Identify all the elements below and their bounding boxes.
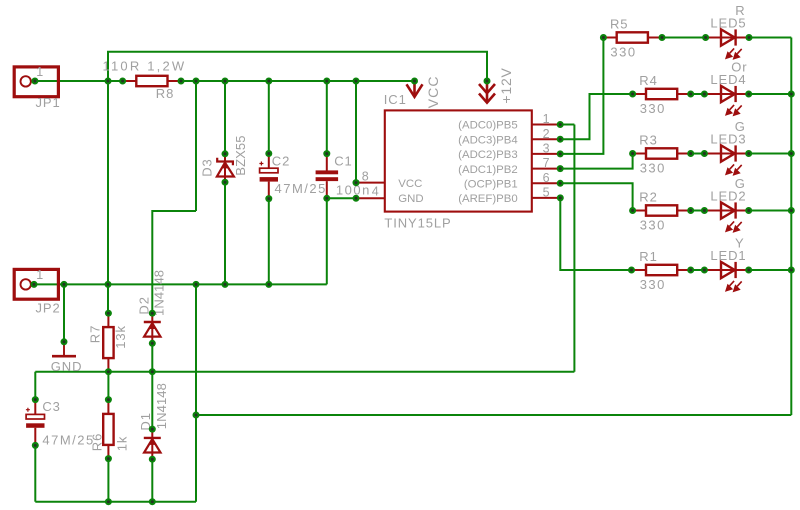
svg-text:IC1: IC1	[384, 92, 407, 107]
node IC pin 7	[557, 165, 564, 172]
node JP2 pin	[31, 281, 38, 288]
node R4 right	[687, 91, 694, 98]
wire sense rail y=371.7	[35, 371, 574, 373]
node C2 bottom	[265, 195, 272, 202]
wire pin 2 to R4	[560, 94, 632, 139]
svg-text:D2: D2	[136, 296, 151, 314]
wire to D1 top	[151, 372, 153, 429]
connector JP1	[14, 67, 58, 97]
node IC pin 3	[557, 150, 564, 157]
svg-text:R2: R2	[639, 189, 657, 204]
node IC pin 2	[557, 136, 564, 143]
IC1 right pin lead 1	[532, 124, 560, 126]
wire to C2 top	[268, 81, 270, 154]
junction right column row LED4	[788, 91, 795, 98]
capacitor C2 (polarized)	[259, 154, 278, 199]
node D2 top	[149, 310, 156, 317]
LED LED3	[705, 145, 749, 174]
svg-text:1: 1	[543, 112, 550, 126]
wire to C3 top	[34, 372, 36, 400]
node IC GND pin	[353, 195, 360, 202]
svg-text:330: 330	[640, 161, 666, 176]
junction +12V/main	[105, 78, 112, 85]
wire pin 1 stub	[560, 124, 574, 126]
svg-text:Or: Or	[731, 59, 747, 74]
wire R2 to LED2	[691, 210, 705, 212]
svg-text:R4: R4	[639, 73, 657, 88]
IC1 VCC GND pin names	[398, 178, 423, 205]
node LED3 right	[745, 150, 752, 157]
node LED4 right	[745, 91, 752, 98]
svg-text:C1: C1	[334, 154, 352, 169]
node D1 bottom	[149, 456, 156, 463]
resistor R1 leads	[632, 269, 691, 271]
node R6 bottom	[105, 455, 112, 462]
wire pin 6 to R2	[560, 183, 632, 210]
svg-text:C3: C3	[42, 399, 60, 414]
svg-text:(ADC0)PB5: (ADC0)PB5	[458, 120, 518, 132]
svg-text:R6: R6	[89, 433, 104, 451]
junction VCC rail/D2 branch	[193, 78, 200, 85]
junction right column row LED1	[788, 267, 795, 274]
svg-text:GND: GND	[398, 193, 423, 205]
wire jog to D2	[152, 211, 196, 313]
wire D2 bottom down	[151, 343, 153, 371]
node C1 bottom	[323, 195, 330, 202]
wire JP2 row	[34, 283, 327, 285]
supply symbol VCC	[407, 82, 423, 97]
svg-text:6: 6	[543, 171, 550, 185]
svg-text:5: 5	[543, 186, 550, 200]
svg-text:2: 2	[543, 127, 550, 141]
resistor R8 body	[136, 76, 167, 86]
wire VCC rail down to jog	[195, 81, 197, 211]
svg-text:330: 330	[610, 45, 636, 60]
node IC pin 5	[557, 194, 564, 201]
zener diode D3	[217, 154, 234, 182]
junction D2/rail	[149, 368, 156, 375]
svg-text:1: 1	[36, 65, 43, 79]
wire D1 bottom down	[151, 459, 153, 502]
resistor R8 leads	[123, 80, 181, 82]
junction GND drop	[61, 281, 68, 288]
resistor R2 leads	[633, 210, 691, 212]
node LED5 right	[746, 34, 753, 41]
wire C2 bottom down	[268, 199, 270, 285]
svg-text:7: 7	[543, 156, 550, 170]
wire LED4 to right column	[749, 93, 792, 95]
resistor R5 body	[617, 32, 648, 42]
svg-text:TINY15LP: TINY15LP	[384, 216, 451, 231]
connector JP2	[14, 269, 58, 299]
node R6 top	[105, 396, 112, 403]
node LED4 left	[701, 91, 708, 98]
junction x108/JP2 row	[105, 281, 112, 288]
LED LED2	[705, 202, 749, 231]
resistor R3 body	[646, 148, 677, 158]
node R7 top	[105, 310, 112, 317]
wire LED1 to right column	[749, 269, 792, 271]
svg-text:330: 330	[640, 101, 666, 116]
wire R7-R6 link	[107, 372, 109, 400]
node R1 right	[687, 267, 694, 274]
node R1 left	[628, 267, 635, 274]
node D1 top	[149, 426, 156, 433]
wire pin 7 to R3	[560, 154, 632, 169]
junction VCC rail/IC	[353, 78, 360, 85]
node R4 left	[629, 91, 636, 98]
node R2 left	[629, 207, 636, 214]
node +12V symbol pin	[484, 78, 491, 85]
wire pin1 down to sense rail	[573, 125, 575, 372]
node LED5 left	[702, 34, 709, 41]
IC1 right pin lead 3	[532, 153, 560, 155]
op-amp/IC U1 = IC1 TINY15LP box	[385, 110, 532, 211]
node IC pin 1	[557, 121, 564, 128]
svg-text:1N4148: 1N4148	[152, 270, 167, 316]
wire JP2 to GND symbol	[63, 284, 65, 341]
svg-text:(ADC2)PB3: (ADC2)PB3	[458, 149, 518, 161]
wire R5 to LED5	[662, 37, 706, 39]
node C2 top	[265, 150, 272, 157]
svg-text:(ADC1)PB2: (ADC1)PB2	[458, 164, 518, 176]
capacitor C1	[316, 154, 339, 199]
svg-text:(AREF)PB0: (AREF)PB0	[458, 193, 518, 205]
svg-text:330: 330	[640, 218, 666, 233]
wire D3 bottom down	[224, 182, 226, 284]
svg-text:47M/25: 47M/25	[275, 181, 327, 196]
junction VCC rail/C1	[323, 78, 330, 85]
svg-text:1N4148: 1N4148	[154, 383, 169, 429]
node JP1 pin	[31, 78, 38, 85]
capacitor C3 (polarized)	[26, 400, 45, 446]
diode D1 1N4148	[144, 429, 161, 459]
svg-text:R3: R3	[639, 132, 657, 147]
wire JP1 to R8 (net +12V)	[35, 80, 123, 82]
resistor R4 leads	[633, 93, 691, 95]
diode D2 1N4148	[144, 313, 161, 343]
junction R8 right	[178, 78, 185, 85]
junction VCC rail/D3	[222, 78, 229, 85]
wire bottom return y=415	[196, 414, 791, 416]
node C1 top	[323, 150, 330, 157]
svg-text:R: R	[735, 3, 745, 18]
svg-text:47M/25: 47M/25	[42, 432, 94, 447]
wire VCC rail y=81	[181, 80, 415, 82]
svg-text:D3: D3	[200, 158, 215, 176]
svg-text:BZX55: BZX55	[233, 135, 248, 175]
svg-text:VCC: VCC	[398, 178, 422, 190]
node VCC symbol pin	[411, 78, 418, 85]
wire to C1 top	[326, 81, 328, 154]
IC1 left pin leads (VCC pin 8, GND pin 4)	[356, 183, 385, 199]
resistor R4 body	[646, 89, 677, 99]
svg-text:8: 8	[362, 170, 369, 184]
resistor R5 leads	[603, 37, 662, 39]
junction D1/bottom rail	[149, 498, 156, 505]
junction x196/y415 rail	[193, 412, 200, 419]
wire C1 bottom up	[326, 198, 328, 284]
resistor R1 body	[646, 265, 677, 275]
wire to IC VCC pin	[355, 81, 357, 183]
resistor R2 body	[646, 205, 677, 215]
svg-text:R5: R5	[610, 16, 628, 31]
junction right column row LED2	[788, 207, 795, 214]
wire +12V top loop	[108, 52, 487, 81]
svg-text:VCC: VCC	[425, 75, 441, 108]
wire x=196 down	[195, 284, 197, 501]
node LED1 right	[745, 267, 752, 274]
node R2 right	[687, 207, 694, 214]
svg-text:G: G	[735, 176, 746, 191]
svg-text:G: G	[735, 119, 746, 134]
supply symbol +12V	[479, 81, 495, 103]
wire C1 to IC GND pin	[327, 197, 356, 199]
IC1 right pin lead 2	[532, 138, 560, 140]
svg-text:13k: 13k	[113, 325, 128, 349]
svg-text:1: 1	[36, 268, 43, 282]
wire R1 to LED1	[691, 269, 705, 271]
svg-text:4: 4	[372, 184, 379, 198]
node R5 left	[600, 34, 607, 41]
node R3 right	[687, 150, 694, 157]
resistor R6 body	[103, 414, 113, 445]
IC1 right pin lead 6	[532, 182, 560, 184]
svg-text:C2: C2	[272, 153, 290, 168]
node LED1 left	[701, 267, 708, 274]
node IC pin 6	[557, 180, 564, 187]
wire x=108 down to JP2 row	[107, 81, 109, 284]
node R3 left	[629, 150, 636, 157]
node LED2 left	[701, 207, 708, 214]
wire to R7 top	[107, 284, 109, 313]
node C3 bottom	[32, 442, 39, 449]
resistor R3 leads	[633, 153, 691, 155]
svg-text:1k: 1k	[114, 436, 129, 452]
wire LED3 to right column	[749, 153, 792, 155]
junction D3 col/JP2 row	[222, 281, 229, 288]
junction x196/JP2 row	[193, 281, 200, 288]
ground symbol GND	[52, 342, 76, 356]
wire bottom rail	[35, 501, 196, 503]
LED LED4	[705, 86, 749, 115]
svg-text:+12V: +12V	[498, 67, 514, 103]
junction VCC rail/C2	[265, 78, 272, 85]
svg-text:R8: R8	[156, 86, 174, 101]
junction R8 left	[119, 78, 126, 85]
node IC VCC pin	[353, 179, 360, 186]
svg-text:R7: R7	[87, 325, 102, 343]
node D2 bottom	[149, 340, 156, 347]
svg-text:3: 3	[543, 142, 550, 156]
svg-text:GND: GND	[51, 359, 83, 374]
svg-text:110R 1,2W: 110R 1,2W	[103, 59, 187, 74]
junction right column row LED3	[788, 150, 795, 157]
svg-text:(OCP)PB1: (OCP)PB1	[464, 179, 518, 191]
node R5 right	[659, 34, 666, 41]
LED LED1	[705, 262, 749, 291]
resistor R7 leads	[107, 313, 109, 372]
node LED3 left	[701, 150, 708, 157]
wire R6 bottom down	[107, 459, 109, 502]
node GND symbol pin	[61, 338, 68, 345]
wire right column x=791	[790, 38, 792, 416]
svg-text:JP1: JP1	[36, 95, 61, 110]
resistor R7 body	[103, 327, 113, 358]
wire LED5 to right column	[749, 37, 791, 39]
resistor R6 leads	[107, 400, 109, 459]
svg-text:Y: Y	[735, 235, 745, 250]
svg-text:JP2: JP2	[36, 301, 61, 316]
node D3 top	[222, 150, 229, 157]
svg-text:(ADC3)PB4: (ADC3)PB4	[458, 134, 518, 146]
LED LED5	[705, 29, 749, 58]
svg-text:R1: R1	[639, 249, 657, 264]
svg-text:330: 330	[640, 277, 666, 292]
IC1 right pin lead 7	[532, 168, 560, 170]
wire pin 3 to R5	[560, 38, 603, 154]
node C3 top	[32, 396, 39, 403]
junction R6/bottom rail	[105, 498, 112, 505]
wire C3 bottom down	[34, 445, 36, 501]
wire pin 5 to R1	[560, 198, 631, 270]
junction C2 col/JP2 row	[265, 281, 272, 288]
wire LED2 to right column	[749, 210, 792, 212]
node D3 bottom	[222, 179, 229, 186]
node LED2 right	[745, 207, 752, 214]
wire to D3 top	[224, 81, 226, 154]
wire R3 to LED3	[691, 153, 705, 155]
IC1 right pin lead 5	[532, 197, 560, 199]
junction R7 bottom/rail	[105, 368, 112, 375]
wire R4 to LED4	[691, 93, 705, 95]
